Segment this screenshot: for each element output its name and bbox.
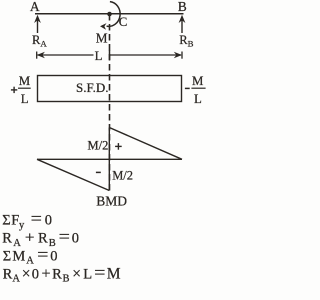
beam AB [35, 13, 184, 15]
svg-text:M/2: M/2 [112, 169, 133, 183]
BMD baseline [37, 158, 182, 160]
BMD left slope (0 to -M/2) [37, 159, 109, 190]
dimension line L [37, 50, 182, 60]
svg-text:A: A [30, 0, 40, 14]
plus sign [115, 143, 122, 150]
reaction arrow R_A [34, 15, 41, 33]
label -M/L (right shear value) [192, 74, 203, 106]
svg-text:L: L [95, 49, 103, 63]
svg-text:L: L [194, 92, 202, 106]
svg-text:M/2: M/2 [88, 139, 109, 153]
moment arc at C [107, 2, 121, 27]
svg-text:BMD: BMD [96, 194, 127, 209]
moment arrowhead [100, 23, 107, 30]
svg-text:C: C [119, 15, 128, 29]
center dot [107, 12, 112, 17]
label +M/L (left shear value) [19, 74, 30, 106]
svg-text:M: M [96, 30, 108, 45]
centerline at C (dashed) [109, 14, 111, 192]
svg-text:M: M [192, 74, 203, 88]
BMD right slope (+M/2 to 0) [109, 128, 182, 160]
svg-text:B: B [178, 0, 187, 14]
SFD rectangle [38, 76, 182, 102]
BMD jump at C (-M/2 to +M/2) [108, 128, 110, 191]
svg-text:S.F.D.: S.F.D. [76, 80, 109, 95]
svg-text:M: M [19, 74, 30, 88]
minus sign [96, 171, 101, 173]
reaction arrow R_B [179, 15, 186, 33]
svg-text:L: L [21, 92, 29, 106]
